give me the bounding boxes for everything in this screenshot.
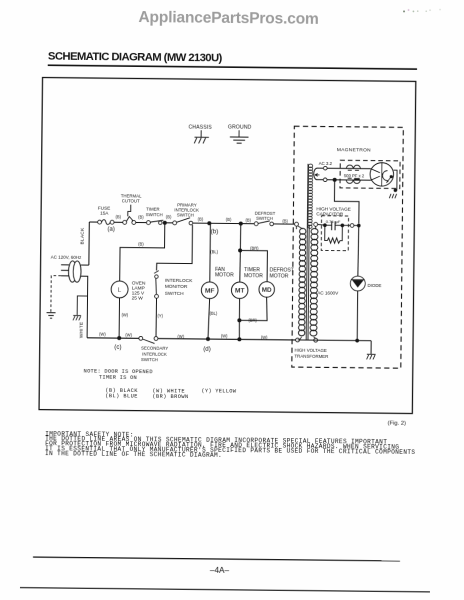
chassis legend symbol <box>188 124 212 143</box>
defrost switch S4 <box>254 211 275 226</box>
bleed resistor R1 <box>325 225 343 243</box>
high voltage transformer T1 <box>293 164 330 359</box>
svg-text:(Y): (Y) <box>157 313 163 318</box>
svg-text:15A: 15A <box>100 211 109 216</box>
svg-text:SCHEMATIC DIAGRAM (MW 2130U): SCHEMATIC DIAGRAM (MW 2130U) <box>48 51 223 65</box>
svg-text:MAGNETRON: MAGNETRON <box>337 147 371 153</box>
label MAGNETRON <box>337 147 371 153</box>
wire: node b to timer-motor tap <box>209 222 240 224</box>
wire: AC hot (black) vertical riser <box>88 222 90 265</box>
svg-text:(BL) BLUE: (BL) BLUE <box>105 393 138 399</box>
diode D1 <box>317 276 381 296</box>
wire: defrost motor top feed <box>240 250 268 281</box>
wire: plug earth dashed lead <box>51 276 61 312</box>
node label WHITE <box>78 322 83 339</box>
node label (B) mid <box>226 217 232 222</box>
wire: lamp to node c <box>118 298 120 338</box>
scan speckles top right <box>403 8 441 12</box>
node label (B) before transformer <box>282 218 288 223</box>
node label (B) after fuse <box>115 214 121 219</box>
svg-text:AC 1600V: AC 1600V <box>317 290 339 295</box>
svg-text:(BL): (BL) <box>210 249 218 254</box>
svg-text:(Y) YELLOW: (Y) YELLOW <box>201 388 236 394</box>
wire: tap to timer motor <box>240 224 241 283</box>
svg-text:(a): (a) <box>107 227 114 233</box>
node label (Y) <box>157 313 163 318</box>
wire: fan motor to node d <box>208 299 210 340</box>
node label (B) lamp branch <box>138 241 144 246</box>
footer rule lower <box>20 588 430 592</box>
junction: capacitor left <box>323 223 327 227</box>
svg-text:(B): (B) <box>166 215 172 220</box>
dashed boundary: critical components area <box>292 126 404 368</box>
junction: oven lamp tap <box>163 221 167 225</box>
svg-text:(B): (B) <box>282 218 288 223</box>
wire: secondary interlock to node d <box>158 338 208 341</box>
svg-text:MD: MD <box>262 287 272 294</box>
wire: diode to bottom rail <box>356 291 359 341</box>
svg-text:AC 3.2: AC 3.2 <box>319 161 333 166</box>
svg-text:25 W: 25 W <box>132 296 144 302</box>
svg-text:L: L <box>118 287 122 294</box>
secondary interlock switch S5 <box>139 336 169 362</box>
wire: node d to timer tap <box>208 338 239 340</box>
svg-text:μF: μF <box>336 219 341 224</box>
node label (W) above node c <box>122 312 129 317</box>
svg-text:(W): (W) <box>125 332 132 337</box>
junction: defrost motor top tap <box>238 248 242 252</box>
node label (BR) bottom <box>248 318 257 323</box>
junction: capacitor right <box>341 224 345 228</box>
wire: magnetron anode to chassis <box>393 170 397 190</box>
svg-text:(c): (c) <box>114 344 121 351</box>
svg-text:(W): (W) <box>99 332 106 337</box>
wire: monitor branch from primary interlock <box>157 225 193 271</box>
node label (BL) below fan motor <box>210 311 218 316</box>
capacitor C1 0.74uF <box>325 219 343 230</box>
svg-text:(W): (W) <box>261 335 268 340</box>
svg-text:SWITCH: SWITCH <box>165 291 185 297</box>
wire: rail to chassis ground <box>370 341 372 354</box>
wire: junction to primary interlock <box>165 222 175 224</box>
svg-text:–4A–: –4A– <box>210 566 230 575</box>
wire: top rail segment to fuse <box>89 221 99 223</box>
wire: node b to fan motor <box>209 223 212 282</box>
timer motor MT <box>231 267 263 299</box>
footer rule upper <box>33 557 400 561</box>
svg-text:(W): (W) <box>122 312 129 317</box>
wire: plug neutral lead (white) drop <box>80 276 88 338</box>
junction: timer motor bottom <box>237 337 241 341</box>
junction: defrost motor bottom tap <box>237 318 241 322</box>
svg-text:GROUND: GROUND <box>228 124 252 130</box>
node label (B) before defrost switch <box>245 218 251 223</box>
svg-text:MOTOR: MOTOR <box>270 273 289 279</box>
title underline rule <box>48 65 417 69</box>
svg-text:MF: MF <box>205 288 215 295</box>
wire: chassis branch from neutral <box>77 296 87 315</box>
junction: capacitor/diode <box>357 224 361 228</box>
footer page number <box>210 566 230 575</box>
AC plug P1 <box>50 254 82 282</box>
dashed boundary: HV capacitor <box>321 216 348 251</box>
wire: lamp branch from timer tap <box>120 222 165 281</box>
svg-text:(W): (W) <box>221 333 228 338</box>
ground legend symbol <box>228 124 252 143</box>
node label (B) after primary interlock <box>198 217 204 222</box>
legend wire colors <box>105 387 237 400</box>
thermal cutout TC1 <box>121 193 142 224</box>
wire: filament top lead <box>319 167 371 170</box>
svg-text:(B): (B) <box>115 214 121 219</box>
wire: tap to defrost switch <box>241 223 256 225</box>
svg-text:SWITCH: SWITCH <box>256 216 273 221</box>
svg-text:(BR): (BR) <box>250 246 259 251</box>
svg-text:(d): (d) <box>203 346 211 353</box>
svg-text:(B): (B) <box>138 241 144 246</box>
node label (B) after timer <box>166 215 172 220</box>
wire: primary interlock to node b <box>193 222 210 224</box>
magnetron V1 <box>370 163 394 187</box>
fan motor MF <box>201 267 234 299</box>
chassis mark at plug branch <box>73 316 81 321</box>
timer switch S1 <box>146 207 164 225</box>
svg-text:HIGH VOLTAGE: HIGH VOLTAGE <box>294 348 326 353</box>
junction: node c <box>117 336 121 340</box>
svg-text:0.74: 0.74 <box>326 219 335 224</box>
defrost motor MD <box>259 267 294 297</box>
terminal on filament top lead <box>323 166 327 170</box>
svg-text:BLACK: BLACK <box>80 227 85 244</box>
wire: transformer bottom rail <box>298 339 372 342</box>
wire: capacitor junction down to diode <box>357 226 360 277</box>
junction: node b (fan motor tap) <box>207 221 211 225</box>
oven lamp L1 <box>111 280 146 302</box>
junction: anode ground <box>394 189 397 192</box>
svg-text:WHITE: WHITE <box>78 322 83 339</box>
feedthrough capacitor pair top <box>346 165 360 170</box>
primary interlock switch S2 <box>173 202 199 225</box>
node c label <box>114 344 121 351</box>
svg-text:MT: MT <box>235 288 245 295</box>
svg-text:TRANSFORMER: TRANSFORMER <box>294 353 328 358</box>
svg-text:INTERLOCK: INTERLOCK <box>142 351 167 356</box>
node label (BL) above fan motor <box>210 249 218 254</box>
chassis mark at transformer <box>367 354 376 359</box>
wire: to bottom rail <box>238 320 240 339</box>
svg-text:IN THE DOTTED LINE OF THE SCHE: IN THE DOTTED LINE OF THE SCHEMATIC DIAG… <box>45 450 222 459</box>
important safety note paragraph <box>45 430 416 460</box>
svg-text:(b): (b) <box>211 228 219 235</box>
node label (BR) top <box>250 246 259 251</box>
watermark header AppliancePartsPros.com <box>138 9 318 28</box>
terminal: capacitor output <box>350 224 354 228</box>
node label (W) after switch <box>177 334 184 339</box>
svg-text:MOTOR: MOTOR <box>244 273 263 279</box>
wire: bottom rail white to node c <box>87 337 119 339</box>
node label (W) right of c <box>125 332 132 337</box>
wire: timer motor lower lead <box>238 298 240 320</box>
wire: monitor switch to node at secondary interlock <box>155 298 158 336</box>
wire: transformer secondary to capacitor <box>318 223 325 226</box>
interlock monitor switch S3 <box>154 271 193 299</box>
wire: defrost motor bottom return <box>239 297 267 321</box>
junction: diode bottom <box>355 339 359 343</box>
filament winding lead loop <box>314 161 333 180</box>
terminal on filament bottom lead <box>323 178 327 182</box>
feedthrough capacitor pair bottom <box>346 178 360 184</box>
dashed boundary: magnetron <box>340 160 400 188</box>
svg-text:AppliancePartsPros.com: AppliancePartsPros.com <box>138 9 318 28</box>
figure caption (Fig. 2) <box>388 421 406 427</box>
svg-text:(W): (W) <box>177 334 184 339</box>
svg-text:CUTOUT: CUTOUT <box>122 198 140 203</box>
fuse F1 15A <box>98 206 114 225</box>
wire: defrost switch to transformer primary <box>273 223 294 225</box>
figure border frame <box>39 78 416 414</box>
wire: node c to secondary interlock <box>119 337 139 339</box>
svg-text:(B): (B) <box>245 218 251 223</box>
junction: timer motor tap <box>239 222 243 226</box>
node label (W) after d <box>221 333 228 338</box>
wire: fuse to thermal cutout <box>114 221 125 223</box>
svg-text:MONITOR: MONITOR <box>165 284 188 290</box>
node label (W) left <box>99 332 106 337</box>
svg-text:DIODE: DIODE <box>368 283 382 288</box>
junction: HV feed on filament lead <box>333 178 337 182</box>
svg-text:(Fig. 2): (Fig. 2) <box>388 421 406 427</box>
node label (W) far right <box>261 335 268 340</box>
chassis mark at magnetron <box>389 194 396 198</box>
value label 500 PF x 2 <box>344 173 365 178</box>
wire: plug hot lead to black riser <box>81 264 89 266</box>
svg-text:AC 120V, 60Hz: AC 120V, 60Hz <box>51 254 82 259</box>
svg-text:(B): (B) <box>198 217 204 222</box>
title SCHEMATIC DIAGRAM (MW 2130U) <box>48 51 223 65</box>
svg-text:(B): (B) <box>226 217 232 222</box>
transformer filament winding (dense) <box>308 164 313 228</box>
label HIGH VOLTAGE CAPACITOR <box>316 207 351 217</box>
svg-text:SWITCH: SWITCH <box>177 212 194 217</box>
ground symbol at plug <box>46 313 55 319</box>
svg-text:SECONDARY: SECONDARY <box>141 346 168 351</box>
node label (B) after cutout <box>138 215 144 220</box>
svg-text:CHASSIS: CHASSIS <box>188 124 212 130</box>
node label BLACK <box>80 227 85 244</box>
junction: node d <box>206 337 210 341</box>
svg-text:INTERLOCK: INTERLOCK <box>165 278 193 284</box>
svg-text:(B): (B) <box>138 215 144 220</box>
wire: filament bottom lead <box>319 179 371 182</box>
svg-text:500 PF x 2: 500 PF x 2 <box>344 173 365 178</box>
note text <box>84 368 153 381</box>
svg-text:TIMER IS ON: TIMER IS ON <box>99 374 137 380</box>
wire: filament junction to HV capacitor <box>334 180 359 224</box>
wire: cutout to timer switch <box>136 221 149 223</box>
node d label <box>203 346 211 353</box>
node b label <box>211 228 219 235</box>
wire: capacitor to diode node <box>342 224 358 226</box>
svg-text:MOTOR: MOTOR <box>215 273 234 279</box>
wire: bottom rail to transformer <box>239 338 295 341</box>
svg-text:(BL): (BL) <box>210 311 218 316</box>
svg-text:(BR) BROWN: (BR) BROWN <box>152 394 188 400</box>
svg-text:SWITCH: SWITCH <box>141 357 158 362</box>
node a label <box>107 227 114 233</box>
svg-text:SWITCH: SWITCH <box>146 212 163 217</box>
